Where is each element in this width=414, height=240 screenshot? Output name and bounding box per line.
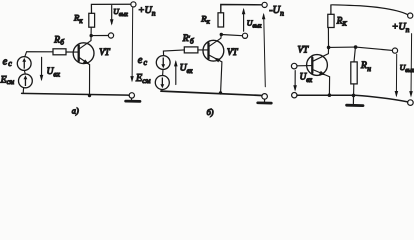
svg-text:VT: VT bbox=[99, 47, 110, 57]
svg-text:VT: VT bbox=[227, 47, 238, 57]
source E_cm bbox=[19, 74, 33, 88]
wire Rk top to +Up terminal bbox=[91, 4, 130, 13]
transistor VT (v) collector bbox=[313, 49, 329, 61]
wire Rk bottom to node (v) bbox=[327, 28, 329, 46]
ground (b) bbox=[264, 99, 266, 101]
bottom rail (v) bbox=[297, 95, 408, 102]
terminal input (v) bbox=[291, 63, 297, 69]
wire node to output terminal (v) bbox=[356, 47, 393, 50]
transistor VT (a) collector bbox=[79, 27, 91, 48]
svg-text:Eсм: Eсм bbox=[0, 74, 15, 86]
transistor VT (b) collector bbox=[209, 35, 221, 47]
terminal rail right (v) bbox=[408, 100, 414, 106]
arrow supply Up (b) up bbox=[264, 15, 266, 87]
arrow U_vyh (v) down bbox=[395, 54, 397, 95]
svg-text:+Uп: +Uп bbox=[138, 5, 156, 17]
terminal -Up (b) bbox=[262, 2, 267, 7]
transistor VT (v) base bar bbox=[311, 58, 313, 73]
wire e_c top to Rb bbox=[25, 52, 53, 57]
svg-text:RК: RК bbox=[336, 15, 348, 27]
terminal rail left (v) bbox=[292, 93, 297, 98]
svg-text:Eсм: Eсм bbox=[135, 73, 151, 85]
wire sources join bbox=[24, 70, 25, 74]
junction emitter-rail (b) bbox=[219, 91, 222, 94]
svg-text:Uвх: Uвх bbox=[180, 64, 193, 75]
wire node to Rn node (v) bbox=[329, 46, 356, 48]
junction collector node (b) bbox=[220, 33, 223, 36]
wire collector to output terminal (b) bbox=[221, 35, 242, 36]
wire e_c top to Rb (b) bbox=[163, 50, 184, 56]
svg-text:а): а) bbox=[72, 107, 79, 116]
terminal rail (b) bbox=[262, 94, 268, 100]
terminal output (b) bbox=[242, 33, 247, 38]
resistor Rb (b) bbox=[184, 47, 198, 53]
bottom rail (b) bbox=[161, 91, 262, 95]
transistor VT (b) circle bbox=[203, 40, 224, 61]
svg-text:Uвх: Uвх bbox=[47, 67, 61, 79]
svg-text:Rн: Rн bbox=[360, 60, 371, 73]
svg-text:б): б) bbox=[207, 108, 214, 117]
source E_cm (b) arrow down bbox=[160, 78, 164, 89]
bottom rail (a) bbox=[22, 93, 130, 95]
transistor VT (v) circle bbox=[307, 55, 328, 76]
arrow supply Up (a) bbox=[131, 8, 134, 81]
svg-text:VT: VT bbox=[298, 44, 309, 54]
terminal +Up (a) bbox=[131, 2, 136, 7]
source e_c arrow bbox=[22, 58, 26, 69]
junction emitter-rail (a) bbox=[88, 94, 91, 97]
terminal output (a) bbox=[108, 33, 113, 38]
svg-text:ec: ec bbox=[138, 55, 148, 67]
svg-text:Uвых: Uвых bbox=[247, 19, 262, 30]
arrow U_vx bbox=[41, 57, 43, 79]
wire Rn bottom to rail (v) bbox=[353, 84, 355, 95]
transistor VT (b) base bar bbox=[207, 43, 209, 58]
terminal +Up (v) bbox=[408, 13, 413, 18]
svg-text:Rб: Rб bbox=[53, 35, 64, 46]
wire E_cm to rail bbox=[22, 88, 24, 94]
svg-text:-Uп: -Uп bbox=[269, 5, 284, 17]
wire E_cm to rail (b) bbox=[161, 90, 163, 92]
wire collector to output terminal bbox=[91, 35, 108, 37]
svg-text:Uвых: Uвых bbox=[400, 63, 414, 74]
ground (v) bbox=[352, 97, 354, 103]
terminal rail (a) bbox=[129, 93, 134, 98]
wire Rk top rail to +Up (v) bbox=[331, 5, 408, 15]
source E_cm (b) bbox=[155, 76, 169, 90]
arrow U_vx (v) down bbox=[294, 71, 296, 90]
svg-text:Rк: Rк bbox=[73, 12, 83, 24]
transistor VT (v) emitter bbox=[313, 70, 330, 95]
transistor VT (a) circle bbox=[73, 43, 94, 64]
svg-text:Rк: Rк bbox=[200, 13, 210, 25]
junction emitter-rail (v) bbox=[328, 93, 332, 97]
resistor Rk (b) bbox=[218, 13, 224, 27]
resistor Rk (v) bbox=[328, 14, 334, 27]
resistor Rb bbox=[53, 49, 66, 55]
wire sources join (b) bbox=[162, 69, 164, 75]
svg-text:Uвых: Uвых bbox=[113, 7, 128, 18]
arrow U_vyh (b) up bbox=[243, 10, 245, 32]
transistor VT (b) emitter bbox=[209, 55, 222, 93]
wire Rb to base (b) bbox=[198, 49, 208, 51]
wire input to base (v) bbox=[297, 65, 311, 67]
junction Rn-rail (v) bbox=[352, 94, 356, 98]
junction Rk node (v) bbox=[327, 46, 331, 50]
terminal output (v) bbox=[392, 48, 397, 53]
resistor Rn (v) bbox=[351, 62, 357, 84]
svg-text:ec: ec bbox=[3, 57, 13, 69]
svg-text:+Uп: +Uп bbox=[392, 22, 410, 34]
source e_c (b) arrow down bbox=[161, 58, 165, 69]
transistor VT (v) emitter arrowhead bbox=[319, 71, 326, 76]
wire Rb to base bbox=[66, 51, 78, 53]
resistor Rk (a) bbox=[89, 13, 95, 27]
junction Rn node (v) bbox=[354, 45, 358, 49]
ground (a) bbox=[131, 98, 133, 100]
arrow supply Up (v) down bbox=[410, 34, 413, 96]
source e_c (b) bbox=[156, 56, 170, 70]
wire Rk top to -Up terminal (b) bbox=[221, 5, 262, 13]
arrow U_vx (b) up bbox=[175, 62, 177, 85]
svg-text:R′б: R′б bbox=[182, 34, 195, 45]
wire Rn top (v) bbox=[354, 47, 355, 62]
arrow U_vyh (a) bbox=[111, 5, 113, 23]
transistor VT (a) base bar bbox=[78, 46, 80, 61]
transistor VT (a) emitter arrowhead bbox=[83, 59, 89, 64]
transistor VT (b) emitter arrowhead PNP bbox=[214, 58, 221, 63]
junction collector node (a) bbox=[90, 34, 93, 37]
transistor VT (a) emitter bbox=[79, 58, 89, 96]
source e_c bbox=[17, 57, 31, 71]
source E_cm arrow bbox=[24, 75, 28, 86]
